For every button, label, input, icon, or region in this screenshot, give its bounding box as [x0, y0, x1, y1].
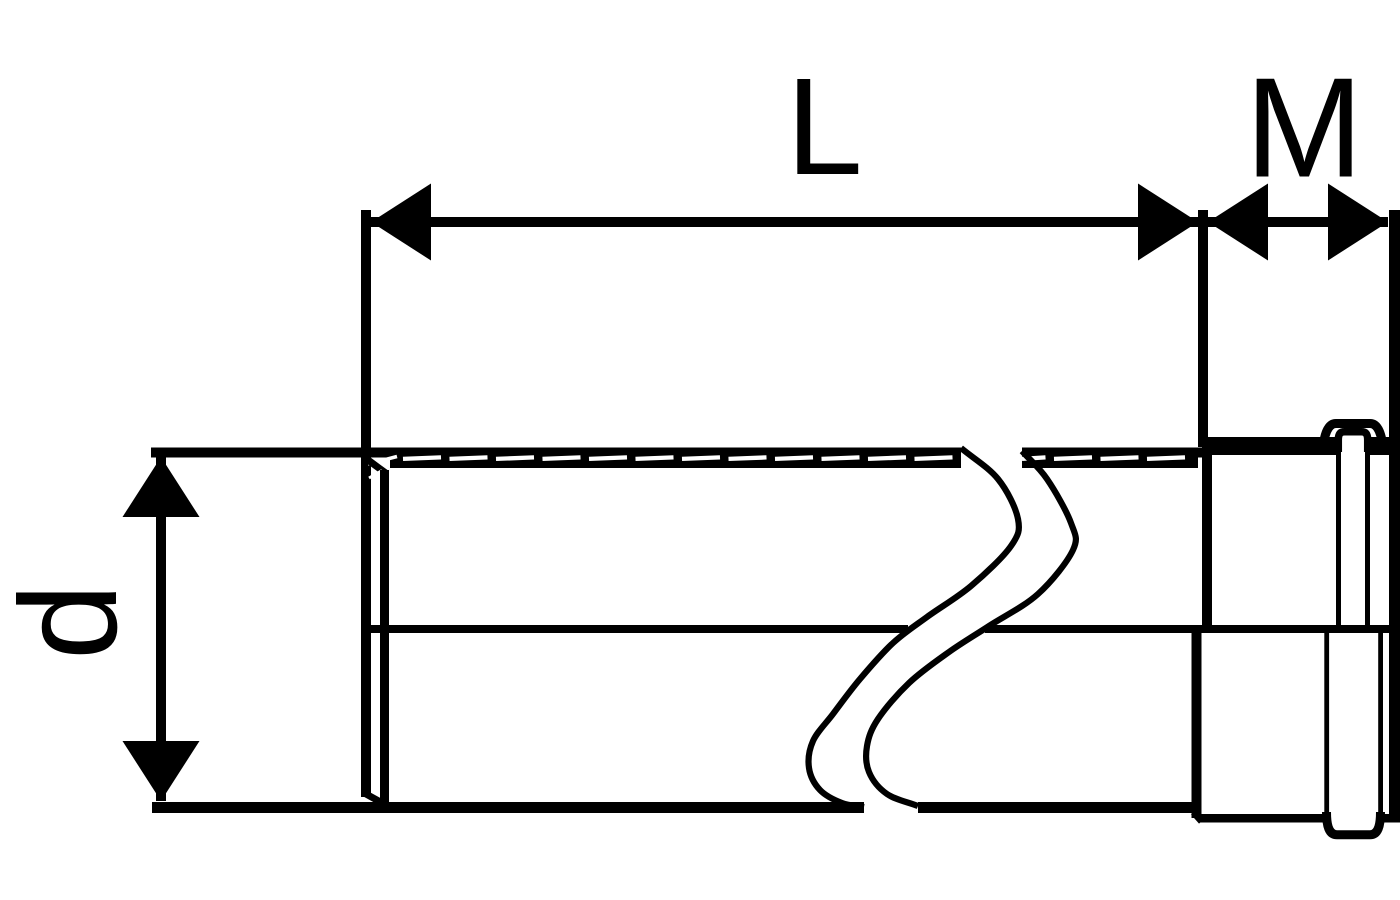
- socket bottom band left part: [1199, 814, 1324, 823]
- svg-text:d: d: [0, 583, 146, 660]
- pipe bottom edge band (with d bottom extension, left segment): [152, 802, 864, 813]
- gasket groove wall lower right: [1378, 633, 1383, 816]
- gasket bulge bottom outer: [1327, 812, 1381, 835]
- gasket groove wall lower left: [1324, 633, 1329, 816]
- break S-curve right: [866, 451, 1076, 806]
- arrowhead L right: [1138, 184, 1198, 261]
- pipe top edge band lower (right segment): [1022, 448, 1198, 469]
- pipe top edge band A (with d top extension line, left part): [151, 448, 390, 458]
- dashed white seam on top edge: [403, 457, 1185, 459]
- dimension line L: [371, 217, 1198, 227]
- pipe middle line (left segment): [365, 625, 908, 633]
- gasket groove wall upper right: [1365, 450, 1370, 629]
- pipe middle line (right segment): [985, 625, 1400, 633]
- socket bottom band right part: [1384, 814, 1400, 823]
- dimension line M: [1208, 217, 1388, 227]
- gasket bulge top inner arch: [1338, 432, 1367, 452]
- extension line L right / M left: [1198, 210, 1208, 447]
- spigot chamfer white gap top left: [368, 457, 397, 465]
- spigot chamfer edge bottom left: [366, 794, 384, 804]
- dimension line d: [156, 457, 166, 801]
- gasket bulge top outer: [1323, 424, 1384, 453]
- arrowhead L left: [371, 184, 431, 261]
- arrowhead M right: [1328, 184, 1388, 261]
- spigot chamfer white sliver below: [369, 471, 382, 479]
- socket bottom-left corner bevel: [1194, 812, 1202, 821]
- socket top wall band right part: [1368, 437, 1400, 455]
- socket face line lower: [1192, 629, 1202, 818]
- svg-text:M: M: [1245, 49, 1363, 208]
- spigot chamfer edge top left: [368, 460, 387, 474]
- spigot inner chamfer line (second vertical at left end): [380, 470, 389, 806]
- extension line L left (continues as pipe end face): [361, 210, 371, 797]
- extension line M right (continues as socket mouth edge): [1389, 210, 1400, 819]
- gasket groove wall upper left: [1336, 450, 1341, 629]
- svg-text:L: L: [786, 50, 863, 204]
- arrowhead d up: [123, 457, 200, 517]
- pipe bottom edge band (right segment): [918, 802, 1197, 813]
- pipe top edge band (right segment): [1022, 448, 1209, 458]
- break S-curve left: [809, 448, 1019, 807]
- arrowhead d down: [123, 741, 200, 801]
- arrowhead M left: [1208, 184, 1268, 261]
- socket top wall band: [1203, 437, 1338, 455]
- pipe top edge band (left segment): [390, 448, 961, 469]
- socket face line upper: [1202, 437, 1212, 629]
